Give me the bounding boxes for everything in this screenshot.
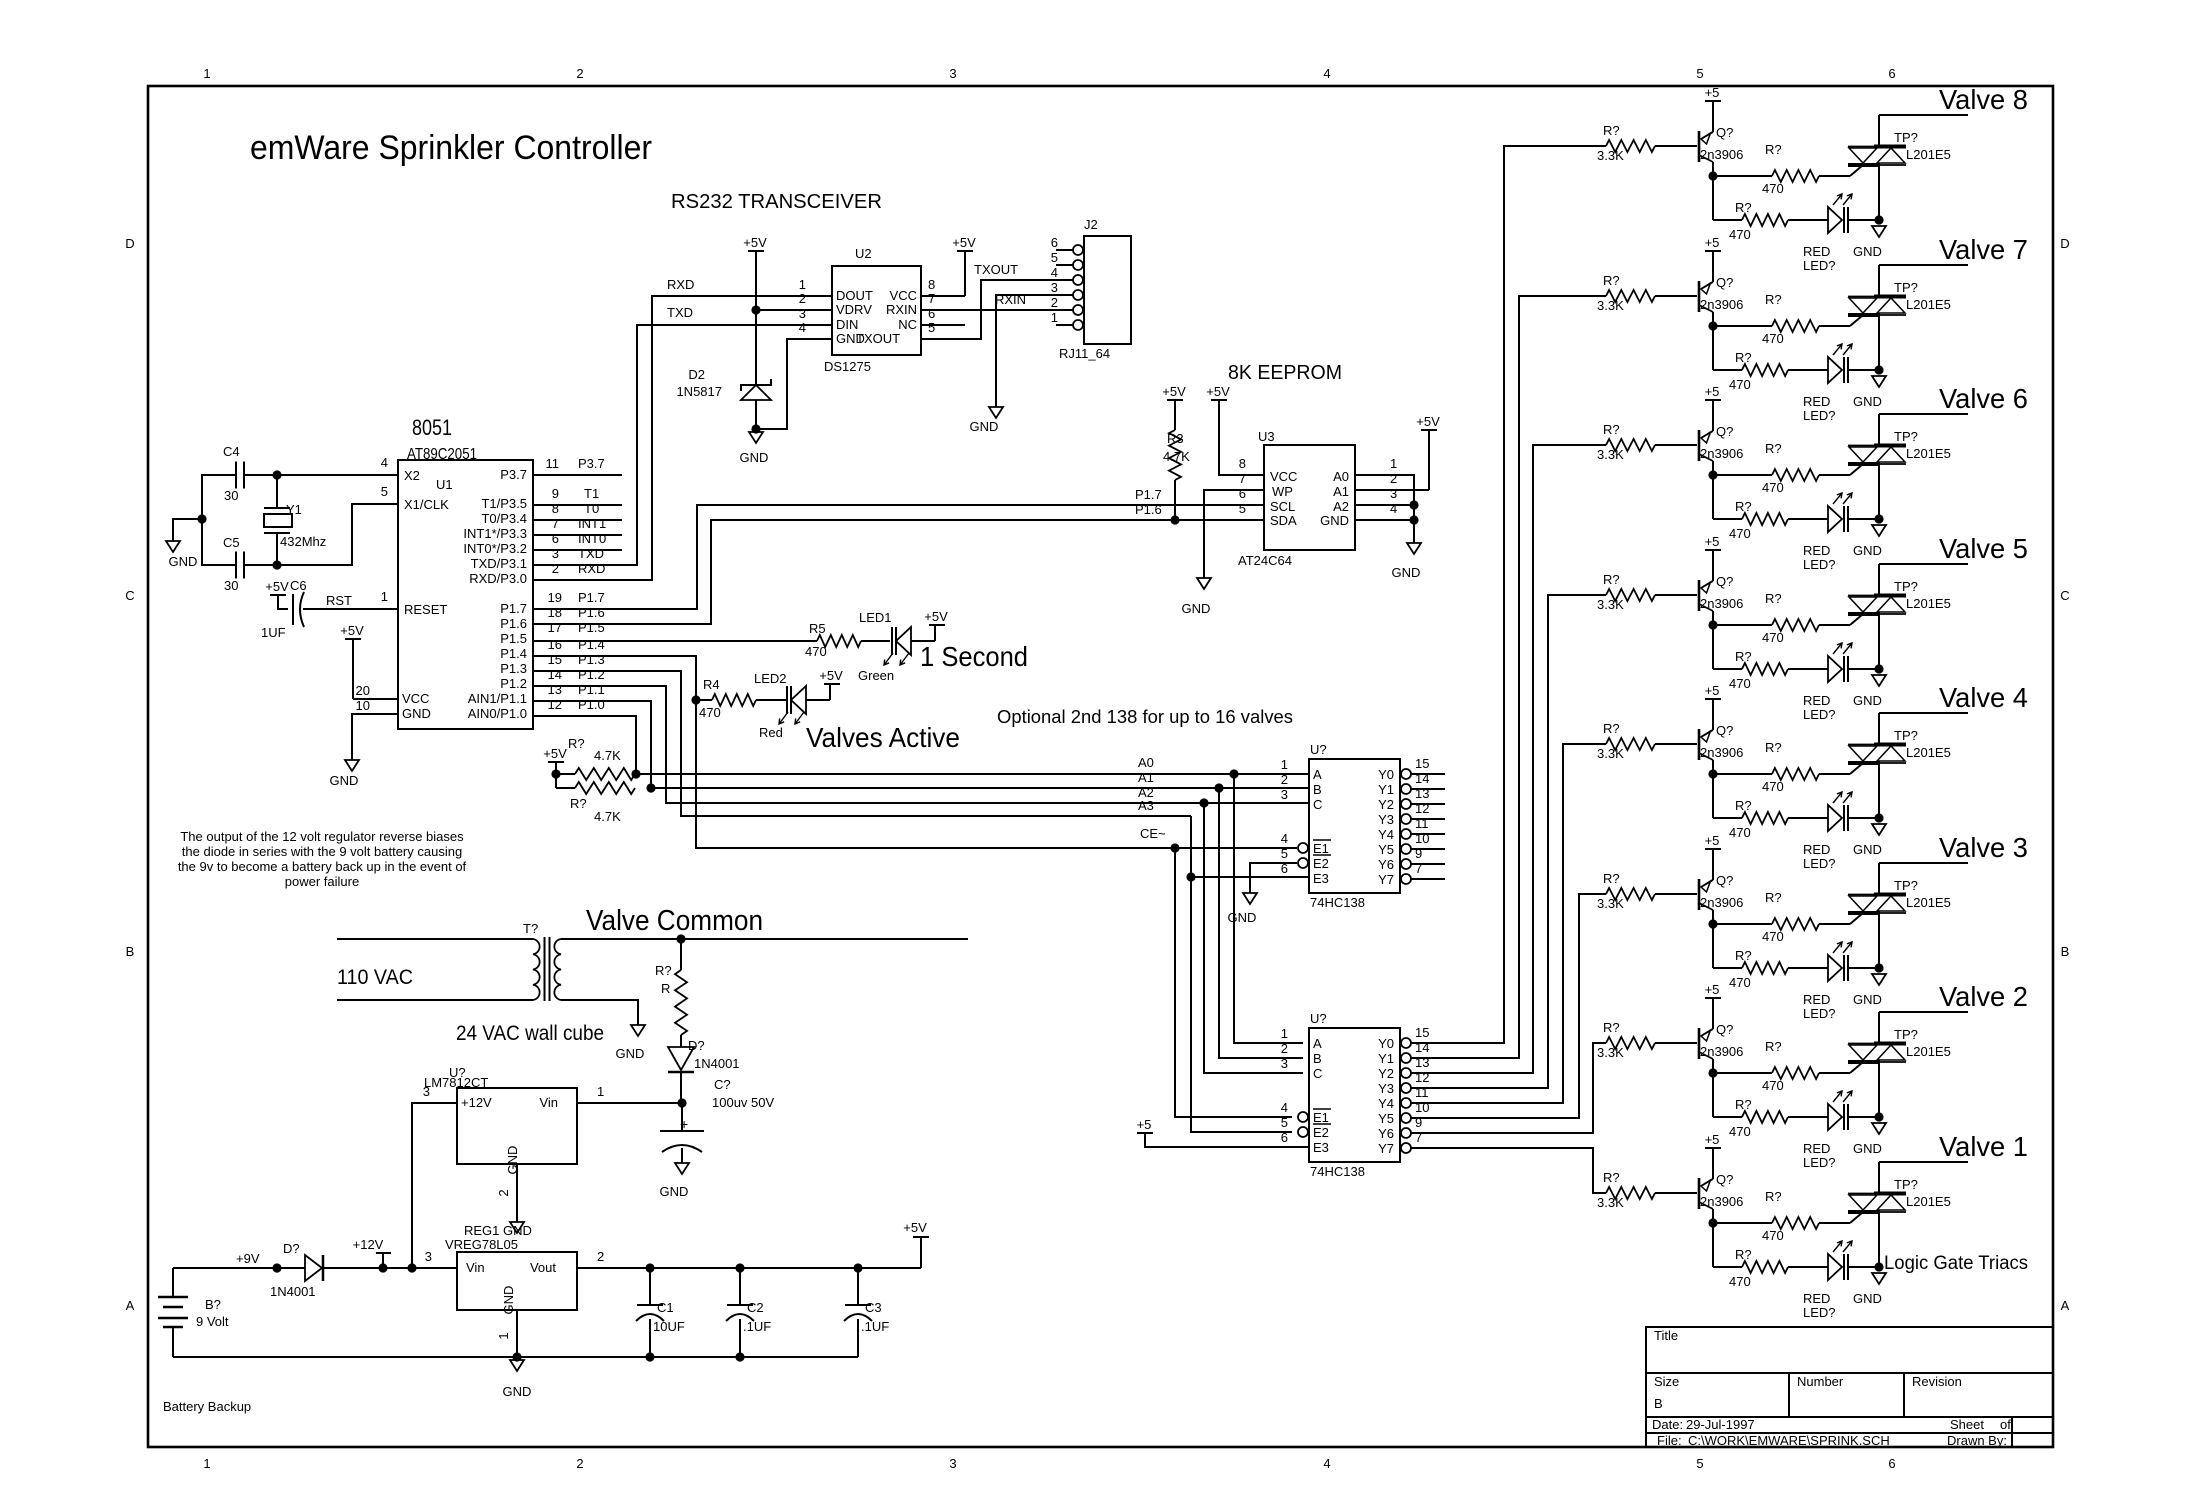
+5 supply at Q? emitter (valve 6)	[1705, 399, 1721, 401]
junction +5V/VDRV/D2	[751, 305, 760, 314]
diode D? 1N4001 (valve common)	[680, 1035, 682, 1047]
svg-text:4: 4	[381, 455, 388, 470]
svg-text:+5: +5	[1705, 982, 1720, 997]
svg-text:470: 470	[1762, 1078, 1784, 1093]
svg-text:470: 470	[1729, 975, 1751, 990]
junction Q? collector (valve 6)	[1708, 470, 1717, 479]
svg-text:TP?: TP?	[1894, 1177, 1918, 1192]
svg-text:Optional 2nd 138 for up to 16: Optional 2nd 138 for up to 16 valves	[997, 707, 1293, 727]
junction Q? collector (valve 2)	[1708, 1068, 1717, 1077]
svg-text:LED?: LED?	[1803, 1155, 1836, 1170]
svg-text:D?: D?	[283, 1241, 300, 1256]
svg-text:TP?: TP?	[1894, 728, 1918, 743]
U1 pin 19 P1.7 wire to EEPROM SCL	[533, 505, 1264, 609]
triac TP? L201E5 (valve 2)	[1848, 1043, 1906, 1045]
svg-text:Y5: Y5	[1378, 842, 1394, 857]
svg-text:4: 4	[1323, 1456, 1330, 1471]
svg-text:R?: R?	[568, 736, 585, 751]
svg-text:1UF: 1UF	[261, 625, 286, 640]
svg-text:Vin: Vin	[466, 1260, 485, 1275]
resistor R? 3.3K (valve 1)	[1606, 1187, 1655, 1199]
wire upper 138 E3 from A3 riser	[1191, 876, 1309, 878]
svg-text:L201E5: L201E5	[1906, 1044, 1951, 1059]
svg-text:1N4001: 1N4001	[694, 1056, 740, 1071]
svg-text:RED: RED	[1803, 1291, 1830, 1306]
svg-text:470: 470	[1729, 526, 1751, 541]
svg-text:+12V: +12V	[461, 1095, 492, 1110]
svg-text:C1: C1	[657, 1300, 674, 1315]
+5V for pull-up resistors	[548, 761, 564, 763]
svg-text:470: 470	[1729, 377, 1751, 392]
svg-text:Y5: Y5	[1378, 1111, 1394, 1126]
triac TP? L201E5 (valve 1)	[1848, 1193, 1906, 1195]
junction LED/triac/ground (valve 6)	[1874, 514, 1883, 523]
svg-text:AT24C64: AT24C64	[1238, 553, 1292, 568]
wire A2 riser to lower 138 pin 3	[1204, 803, 1303, 1073]
resistor R4 470	[696, 699, 712, 701]
LED? red (valve 3)	[1828, 955, 1842, 981]
U1 pin 1 wire (RESET)	[305, 608, 398, 610]
resistor R3 4.7K pull-up	[1167, 399, 1183, 401]
J2 pin 3 wire to ground	[996, 295, 1073, 407]
svg-text:R?: R?	[1603, 721, 1620, 736]
svg-text:VDRV: VDRV	[836, 302, 872, 317]
svg-text:LED?: LED?	[1803, 408, 1836, 423]
U1 pin 4 wire (X2)	[243, 474, 398, 476]
svg-text:4: 4	[1051, 265, 1058, 280]
junction R4 tap on P1.4 net	[691, 695, 700, 704]
svg-text:RED: RED	[1803, 842, 1830, 857]
LM7812 pin 2 GND wire	[516, 1164, 518, 1222]
junction R/P1.0/A0	[631, 769, 640, 778]
U1 pin 6 wire (INT0 stub)	[533, 549, 622, 551]
svg-text:TP?: TP?	[1894, 429, 1918, 444]
resistor R? R (valve common bleed)	[680, 939, 682, 970]
svg-text:INT0*/P3.2: INT0*/P3.2	[463, 541, 527, 556]
svg-text:of: of	[2000, 1417, 2011, 1432]
junction LED/triac/ground (valve 5)	[1874, 664, 1883, 673]
C4 right wire	[244, 474, 398, 476]
svg-text:5: 5	[381, 484, 388, 499]
svg-text:18: 18	[548, 605, 562, 620]
svg-text:6: 6	[1281, 1130, 1288, 1145]
svg-text:GND: GND	[1392, 565, 1421, 580]
junction C5/Y1	[272, 560, 281, 569]
svg-text:GND: GND	[1853, 1291, 1882, 1306]
LED? red (valve 5)	[1828, 656, 1842, 682]
svg-text:U?: U?	[1310, 1011, 1327, 1026]
svg-text:A2: A2	[1333, 499, 1349, 514]
svg-text:470: 470	[1729, 1274, 1751, 1289]
triac TP? L201E5 (valve 6)	[1848, 445, 1906, 447]
IC U1 AT89C2051 body	[398, 460, 533, 729]
svg-text:5: 5	[1239, 501, 1246, 516]
+5 supply at Q? emitter (valve 3)	[1705, 848, 1721, 850]
svg-text:16: 16	[548, 637, 562, 652]
junction C1 bottom	[645, 1352, 654, 1361]
svg-text:Valve 2: Valve 2	[1939, 981, 2028, 1012]
svg-text:RED: RED	[1803, 244, 1830, 259]
resistor R? 3.3K (valve 8)	[1606, 140, 1655, 152]
svg-text:2: 2	[597, 1249, 604, 1264]
junction Q? collector (valve 1)	[1708, 1218, 1717, 1227]
svg-text:T0/P3.4: T0/P3.4	[481, 511, 527, 526]
svg-text:R5: R5	[809, 621, 826, 636]
junction on GND rail	[197, 514, 206, 523]
svg-text:R?: R?	[1735, 1097, 1752, 1112]
junction R/P1.1/A1	[646, 783, 655, 792]
svg-text:1: 1	[203, 66, 210, 81]
svg-text:470: 470	[1729, 825, 1751, 840]
svg-text:B: B	[2061, 944, 2070, 959]
svg-text:Q?: Q?	[1716, 723, 1733, 738]
+5 supply at Q? emitter (valve 8)	[1705, 100, 1721, 102]
svg-text:LED?: LED?	[1803, 258, 1836, 273]
LED? emission arrows (valve 7)	[1833, 344, 1842, 355]
svg-text:A1: A1	[1138, 770, 1154, 785]
svg-text:10UF: 10UF	[653, 1319, 685, 1334]
svg-text:2n3906: 2n3906	[1700, 745, 1743, 760]
wire upper 138 E2 to ground	[1250, 863, 1297, 893]
resistor R? 3.3K (valve 5)	[1606, 589, 1655, 601]
svg-text:GND: GND	[1853, 1141, 1882, 1156]
LED? red (valve 1)	[1828, 1254, 1842, 1280]
74HC138 E1 inverter circle (lower)	[1298, 1112, 1308, 1122]
U1 pin 10 wire (GND)	[352, 714, 398, 760]
svg-text:TP?: TP?	[1894, 579, 1918, 594]
svg-text:RED: RED	[1803, 543, 1830, 558]
IC REG1 VREG78L05 body	[457, 1252, 577, 1310]
title block column divider size/number	[1788, 1373, 1790, 1417]
svg-text:+5V: +5V	[1162, 384, 1186, 399]
svg-text:TP?: TP?	[1894, 878, 1918, 893]
U3 pin 1 A0 wire	[1355, 475, 1414, 543]
junction Q? collector (valve 5)	[1708, 620, 1717, 629]
svg-text:Valve 6: Valve 6	[1939, 383, 2028, 414]
ground at valve 6 driver	[1872, 525, 1886, 536]
svg-text:4: 4	[1281, 831, 1288, 846]
ground at valve 1 driver	[1872, 1273, 1886, 1284]
J2 pin 1	[1073, 320, 1083, 330]
svg-text:+12V: +12V	[353, 1237, 384, 1252]
capacitor C6 1UF (reset)	[270, 594, 286, 596]
svg-text:Valve 5: Valve 5	[1939, 533, 2028, 564]
LED? emission arrows (valve 6)	[1833, 493, 1842, 504]
svg-text:DOUT: DOUT	[836, 288, 873, 303]
svg-text:P1.6: P1.6	[578, 605, 605, 620]
ground at valve 2 driver	[1872, 1123, 1886, 1134]
svg-text:3: 3	[1281, 787, 1288, 802]
svg-text:Logic Gate Triacs: Logic Gate Triacs	[1884, 1253, 2028, 1274]
svg-text:R?: R?	[1765, 1039, 1782, 1054]
svg-text:+5: +5	[1705, 235, 1720, 250]
svg-text:GND: GND	[1853, 394, 1882, 409]
svg-text:R?: R?	[1603, 422, 1620, 437]
svg-text:E2: E2	[1313, 1125, 1329, 1140]
svg-text:470: 470	[699, 705, 721, 720]
svg-text:Vin: Vin	[539, 1095, 558, 1110]
transistor Q? 2n3906 (valve 7)	[1698, 281, 1701, 312]
ground below U1 pin 10	[345, 760, 359, 771]
svg-text:Revision: Revision	[1912, 1374, 1962, 1389]
LED? emission arrows (valve 3)	[1833, 942, 1842, 953]
svg-text:C:\WORK\EMWARE\SPRINK.SCH: C:\WORK\EMWARE\SPRINK.SCH	[1688, 1433, 1890, 1448]
ground for crystal caps	[173, 519, 202, 541]
svg-text:DIN: DIN	[836, 317, 858, 332]
U1 pin 16 P1.4 wire to CE~	[533, 656, 1175, 848]
svg-text:Battery Backup: Battery Backup	[163, 1399, 251, 1414]
svg-text:INT1: INT1	[578, 516, 606, 531]
svg-text:Q?: Q?	[1716, 275, 1733, 290]
junction on +9V wire	[272, 1263, 281, 1272]
LED? emission arrows (valve 2)	[1833, 1091, 1842, 1102]
ground at valve 3 driver	[1872, 974, 1886, 985]
svg-text:Date:: Date:	[1652, 1417, 1683, 1432]
J2 pin 5	[1073, 260, 1083, 270]
svg-text:L201E5: L201E5	[1906, 745, 1951, 760]
svg-text:Q?: Q?	[1716, 424, 1733, 439]
svg-text:LED?: LED?	[1803, 856, 1836, 871]
svg-text:A0: A0	[1333, 469, 1349, 484]
title block row divider 1	[1646, 1372, 2053, 1374]
svg-text:4: 4	[799, 320, 806, 335]
svg-text:GND: GND	[970, 419, 999, 434]
svg-text:D2: D2	[688, 367, 705, 382]
svg-text:R?: R?	[1603, 273, 1620, 288]
capacitor C1 10UF	[649, 1268, 651, 1305]
svg-text:X1/CLK: X1/CLK	[404, 497, 449, 512]
svg-text:GND: GND	[1853, 842, 1882, 857]
+5V at LED2	[824, 683, 840, 685]
svg-text:P1.2: P1.2	[578, 667, 605, 682]
svg-text:B: B	[126, 944, 135, 959]
transistor Q? 2n3906 (valve 1)	[1698, 1178, 1701, 1209]
svg-text:C: C	[2060, 588, 2069, 603]
74HC138 output circles (upper optional)	[1401, 769, 1411, 779]
svg-text:The output of the 12 volt regu: The output of the 12 volt regulator reve…	[180, 829, 464, 844]
+5 supply at Q? emitter (valve 7)	[1705, 250, 1721, 252]
svg-text:R?: R?	[570, 796, 587, 811]
svg-text:13: 13	[548, 682, 562, 697]
svg-text:GND: GND	[1320, 513, 1349, 528]
svg-text:+5V: +5V	[819, 668, 843, 683]
capacitor C? 100uv 50V	[681, 1103, 683, 1131]
svg-text:+5V: +5V	[265, 579, 289, 594]
svg-text:LED2: LED2	[754, 671, 787, 686]
svg-text:2: 2	[576, 66, 583, 81]
svg-text:19: 19	[548, 590, 562, 605]
svg-text:2: 2	[1281, 772, 1288, 787]
svg-text:15: 15	[548, 652, 562, 667]
resistor R? 470 LED (valve 4)	[1712, 774, 1714, 818]
svg-text:P1.5: P1.5	[500, 631, 527, 646]
svg-text:R?: R?	[1765, 890, 1782, 905]
svg-text:17: 17	[548, 620, 562, 635]
svg-text:1: 1	[1281, 757, 1288, 772]
svg-text:3: 3	[949, 66, 956, 81]
svg-text:74HC138: 74HC138	[1310, 1164, 1365, 1179]
svg-text:Y6: Y6	[1378, 1126, 1394, 1141]
svg-text:4.7K: 4.7K	[594, 748, 621, 763]
svg-text:R?: R?	[1765, 1189, 1782, 1204]
svg-text:R?: R?	[1603, 1170, 1620, 1185]
transistor Q? 2n3906 (valve 4)	[1698, 729, 1701, 760]
IC U? LM7812CT body	[457, 1088, 577, 1164]
resistor R? 4.7K pull-up A1	[556, 787, 575, 789]
svg-text:A1: A1	[1333, 484, 1349, 499]
LM7812 pin 1 wire (Vin)	[577, 1102, 682, 1104]
svg-text:GND: GND	[503, 1384, 532, 1399]
U1 pin 9 wire (T1 stub)	[533, 504, 622, 506]
valve common wire	[561, 938, 968, 940]
svg-text:C6: C6	[290, 578, 307, 593]
svg-text:LED?: LED?	[1803, 1006, 1836, 1021]
J2 pin 2	[1073, 305, 1083, 315]
valve 8 output wire	[1879, 114, 1968, 116]
resistor R? 3.3K (valve 7)	[1606, 290, 1655, 302]
svg-text:4.7K: 4.7K	[594, 809, 621, 824]
U1 pin 11 wire (P3.7 stub)	[533, 474, 622, 476]
svg-text:2n3906: 2n3906	[1700, 1044, 1743, 1059]
svg-text:GND: GND	[1228, 910, 1257, 925]
junction A1 riser	[1214, 783, 1223, 792]
svg-text:R4: R4	[703, 677, 720, 692]
svg-text:8051: 8051	[412, 415, 452, 440]
svg-text:Y2: Y2	[1378, 797, 1394, 812]
svg-text:Q?: Q?	[1716, 574, 1733, 589]
+5 supply at Q? emitter (valve 5)	[1705, 549, 1721, 551]
junction Q? collector (valve 3)	[1708, 919, 1717, 928]
74HC138 output circles (lower)	[1401, 1038, 1411, 1048]
resistor R? 470 LED (valve 2)	[1712, 1073, 1714, 1117]
svg-text:1: 1	[203, 1456, 210, 1471]
svg-text:3.3K: 3.3K	[1597, 447, 1624, 462]
74HC138 E1 inverter circle (upper optional)	[1298, 843, 1308, 853]
svg-text:1: 1	[597, 1084, 604, 1099]
svg-text:AIN0/P1.0: AIN0/P1.0	[468, 706, 527, 721]
svg-text:RESET: RESET	[404, 602, 447, 617]
svg-text:1N5817: 1N5817	[676, 384, 722, 399]
capacitor C3 .1UF	[857, 1268, 859, 1305]
svg-text:R?: R?	[1765, 292, 1782, 307]
diode D? 1N4001 (battery)	[305, 1255, 322, 1281]
svg-text:P1.4: P1.4	[578, 637, 605, 652]
wire battery to diode	[173, 1267, 305, 1269]
svg-text:T?: T?	[523, 921, 538, 936]
svg-text:2n3906: 2n3906	[1700, 147, 1743, 162]
svg-text:P3.7: P3.7	[578, 456, 605, 471]
wire 74HC138 Y3 to valve 5 driver	[1411, 595, 1606, 1088]
svg-text:+5: +5	[1705, 85, 1720, 100]
svg-text:.1UF: .1UF	[861, 1319, 889, 1334]
74HC138 E2 inverter circle (upper optional)	[1298, 858, 1308, 868]
C5 right wire	[244, 564, 283, 566]
resistor R? 470 LED (valve 8)	[1712, 176, 1714, 220]
svg-text:Y3: Y3	[1378, 1081, 1394, 1096]
LM7812 pin 3 wire (+12V out)	[412, 1103, 457, 1268]
U2 pin 6 NC stub	[921, 324, 965, 326]
svg-text:RXD: RXD	[578, 561, 605, 576]
svg-text:2: 2	[799, 291, 806, 306]
resistor R? 3.3K (valve 6)	[1606, 439, 1655, 451]
U1 pin 20 wire (VCC)	[353, 698, 398, 700]
svg-text:10: 10	[356, 698, 370, 713]
junction A2 riser	[1199, 798, 1208, 807]
resistor R? 3.3K (valve 2)	[1606, 1037, 1655, 1049]
svg-text:20: 20	[356, 683, 370, 698]
svg-text:Y1: Y1	[1378, 782, 1394, 797]
svg-text:U?: U?	[1310, 742, 1327, 757]
svg-text:+5V: +5V	[1206, 384, 1230, 399]
svg-text:D: D	[2060, 236, 2069, 251]
svg-text:3: 3	[799, 306, 806, 321]
resistor R? 470 LED (valve 1)	[1712, 1223, 1714, 1267]
svg-text:RED: RED	[1803, 992, 1830, 1007]
triac TP? L201E5 (valve 7)	[1848, 296, 1906, 298]
LED2 emission arrows	[779, 712, 788, 724]
junction LED/triac/ground (valve 2)	[1874, 1112, 1883, 1121]
svg-text:P1.7: P1.7	[578, 590, 605, 605]
U2 pin 4 GND wire	[756, 339, 832, 429]
svg-text:GND: GND	[501, 1286, 516, 1315]
J2 pin 4	[1073, 275, 1083, 285]
svg-text:+5V: +5V	[1416, 414, 1440, 429]
transistor Q? 2n3906 (valve 5)	[1698, 580, 1701, 611]
+5 supply at Q? emitter (valve 2)	[1705, 997, 1721, 999]
ground at valve 5 driver	[1872, 675, 1886, 686]
wire 74HC138 Y6 to valve 2 driver	[1411, 1043, 1606, 1133]
svg-text:D?: D?	[688, 1038, 705, 1053]
svg-text:Q?: Q?	[1716, 125, 1733, 140]
svg-text:TP?: TP?	[1894, 280, 1918, 295]
svg-text:GND: GND	[616, 1046, 645, 1061]
svg-text:+5: +5	[1705, 534, 1720, 549]
svg-text:E3: E3	[1313, 1140, 1329, 1155]
svg-text:P1.4: P1.4	[500, 646, 527, 661]
LED2 red indicator	[756, 699, 787, 701]
svg-text:6: 6	[1888, 1456, 1895, 1471]
J2 pin 3	[1073, 290, 1083, 300]
svg-text:4: 4	[1281, 1100, 1288, 1115]
title block row divider 3	[1646, 1432, 2053, 1434]
svg-text:LED1: LED1	[859, 610, 892, 625]
wire 74HC138 Y0 to valve 8 driver	[1411, 146, 1606, 1043]
junction valve common	[676, 934, 685, 943]
svg-text:R?: R?	[1765, 441, 1782, 456]
capacitor C2 .1UF	[739, 1268, 741, 1305]
svg-text:3.3K: 3.3K	[1597, 1045, 1624, 1060]
LED? emission arrows (valve 4)	[1833, 792, 1842, 803]
U2 pin 8 VCC wire with +5V	[921, 295, 965, 297]
triac TP? L201E5 (valve 3)	[1848, 894, 1906, 896]
svg-text:NC: NC	[898, 317, 917, 332]
LED? red (valve 4)	[1828, 805, 1842, 831]
U1 pin 12 P1.0 wire to A0	[533, 716, 1309, 774]
svg-text:11: 11	[546, 456, 560, 471]
svg-text:GND: GND	[1853, 693, 1882, 708]
transformer T? core	[544, 937, 546, 1001]
svg-text:P1.2: P1.2	[500, 676, 527, 691]
resistor R? 470 gate (valve 4)	[1713, 773, 1772, 775]
svg-text:R?: R?	[1735, 948, 1752, 963]
svg-text:2: 2	[1281, 1041, 1288, 1056]
svg-text:the 9v to become a battery bac: the 9v to become a battery back up in th…	[178, 859, 467, 874]
svg-text:8: 8	[1239, 456, 1246, 471]
svg-text:30: 30	[224, 488, 238, 503]
svg-text:2n3906: 2n3906	[1700, 895, 1743, 910]
LED1 green indicator	[861, 640, 890, 642]
triac TP? L201E5 (valve 5)	[1848, 595, 1906, 597]
